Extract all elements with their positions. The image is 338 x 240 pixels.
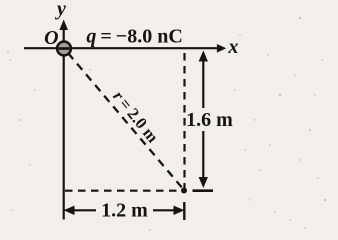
svg-text:1.2 m: 1.2 m	[101, 200, 148, 222]
svg-text:y: y	[55, 0, 66, 20]
svg-text:q = −8.0 nC: q = −8.0 nC	[86, 25, 182, 47]
svg-text:O: O	[44, 27, 58, 49]
svg-text:1.6 m: 1.6 m	[186, 109, 233, 131]
svg-text:x: x	[227, 36, 238, 58]
